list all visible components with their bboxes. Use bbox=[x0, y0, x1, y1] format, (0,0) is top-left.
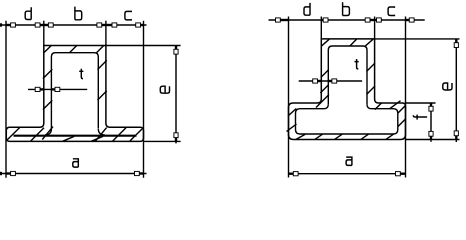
arrow f bottom bbox=[429, 131, 433, 139]
dimension line e (left) bbox=[175, 46, 177, 144]
arrow e bottom bbox=[174, 133, 178, 142]
arrow t left (right fig) bbox=[313, 79, 322, 83]
label d (left) bbox=[25, 7, 31, 19]
right profile hatching bbox=[287, 39, 406, 139]
arrow t right bbox=[51, 87, 59, 91]
dimension line d b c (left) bbox=[0, 24, 147, 26]
label a (right) bbox=[346, 157, 352, 165]
label t (left) bbox=[79, 69, 83, 79]
dimension t (left): leader line bbox=[28, 88, 87, 90]
arrow b right bbox=[97, 23, 106, 27]
dimension t (right): leader line bbox=[299, 80, 362, 82]
arrow c right (outside) bbox=[406, 18, 415, 22]
label f (right, rotated) bbox=[413, 115, 427, 120]
dimension d b c extension lines (left) bbox=[6, 21, 144, 178]
arrow e bottom (right) bbox=[454, 131, 458, 140]
dimension line d b c (right) bbox=[269, 19, 425, 21]
arrow c right bbox=[136, 23, 144, 27]
arrow a left (right fig) bbox=[289, 172, 298, 176]
dimension e (left): extension lines bbox=[106, 46, 181, 142]
dimension f (right): extension line top bbox=[406, 102, 436, 104]
arrow t right (right fig) bbox=[328, 79, 336, 83]
arrow a left bbox=[6, 171, 15, 175]
arrow d right bbox=[35, 23, 44, 27]
right profile outer contour bbox=[289, 39, 406, 140]
arrow b left: same tick as d right (shared), arrow b right bbox=[365, 18, 374, 22]
right profile inner contour bbox=[296, 46, 398, 134]
left profile outer contour bbox=[6, 46, 143, 142]
arrow f top bbox=[429, 103, 433, 111]
label b (left) bbox=[75, 7, 82, 20]
label c (left) bbox=[125, 11, 131, 20]
arrow e top bbox=[174, 46, 178, 55]
label t (right) bbox=[355, 59, 359, 69]
label d (right) bbox=[304, 3, 310, 15]
dimension a (left): line bbox=[0, 173, 147, 175]
arrow b left bbox=[44, 23, 53, 27]
left flange middle thick line bbox=[14, 135, 137, 137]
arrow a right (right fig) bbox=[396, 172, 405, 176]
arrow d left bbox=[6, 23, 15, 27]
arrow c left bbox=[106, 23, 117, 27]
left profile hatching bbox=[7, 45, 142, 141]
dimension line e (right) bbox=[455, 39, 457, 142]
left profile inner contour (stem inner + flange middle line) bbox=[45, 53, 105, 135]
dimension a (right): line bbox=[289, 173, 405, 175]
arrow e top (right) bbox=[454, 39, 458, 48]
label e (right, rotated) bbox=[443, 83, 452, 90]
arrow d right bbox=[321, 18, 328, 22]
arrow c left bbox=[375, 18, 382, 22]
dimension e (right): extension lines bbox=[375, 39, 460, 140]
label a (left) bbox=[73, 159, 79, 167]
dimension d b c extension lines (right) bbox=[289, 17, 406, 178]
label e (left, rotated) bbox=[160, 86, 169, 93]
dimension line f bbox=[430, 103, 432, 142]
label c (right) bbox=[388, 7, 394, 16]
label b (right) bbox=[343, 2, 350, 15]
arrow t left bbox=[35, 87, 44, 91]
arrow a right bbox=[135, 171, 144, 175]
arrow d left (outside) bbox=[276, 18, 289, 22]
